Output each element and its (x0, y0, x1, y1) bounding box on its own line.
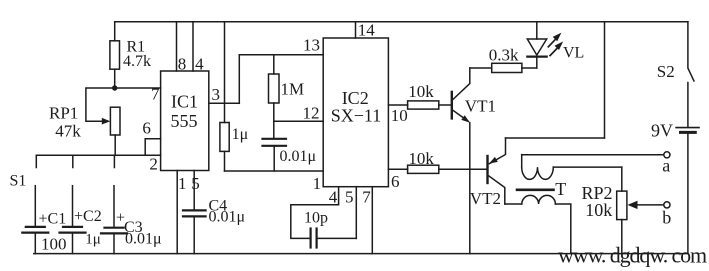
wire bottom ground rail (34, 253, 688, 255)
svg-text:5: 5 (191, 174, 200, 193)
capacitor 0.01u (under 1M) (263, 121, 317, 171)
resistor R1 4.7k (110, 22, 151, 88)
resistor 0.3k (470, 45, 537, 72)
IC1 pin 6 jog wire (142, 118, 160, 155)
svg-text:10p: 10p (304, 209, 328, 226)
switch S1 (3-gang selector contacts) (10, 155, 115, 189)
resistor 10k (upper) (408, 82, 452, 109)
svg-text:+C1: +C1 (39, 210, 67, 227)
potentiometer RP2 10k (582, 167, 627, 254)
resistor 1M (269, 55, 305, 122)
svg-text:6: 6 (142, 118, 151, 137)
svg-text:b: b (662, 208, 671, 228)
svg-text:1μ: 1μ (85, 232, 101, 248)
svg-text:9V: 9V (651, 121, 673, 141)
IC2 pin 14 (356, 21, 376, 40)
transformer T primary (top coil) (522, 155, 622, 180)
svg-text:1: 1 (178, 174, 187, 193)
IC2 pin 5 wire (318, 187, 357, 239)
transistor VT2 (PNP) (470, 138, 605, 208)
svg-text:a: a (662, 156, 670, 176)
watermark www.dgdqw.com (558, 243, 707, 268)
wire riser pin3 to pin13 line (238, 55, 240, 104)
svg-text:8: 8 (178, 55, 187, 74)
svg-text:www. dgdqw. com: www. dgdqw. com (558, 243, 707, 268)
svg-text:0.01μ: 0.01μ (125, 231, 162, 248)
svg-text:4.7k: 4.7k (123, 53, 151, 70)
IC1 pin 2 label (149, 154, 158, 173)
wire to IC2 pin 1 (225, 171, 324, 193)
LED VL (527, 22, 584, 68)
svg-text:IC1: IC1 (171, 92, 198, 112)
svg-text:4: 4 (195, 55, 204, 74)
wire junction to IC1 pin 7 (115, 87, 161, 89)
svg-text:100: 100 (41, 235, 67, 254)
switch S2 (657, 22, 694, 127)
capacitor 10p (304, 209, 328, 247)
resistor 10k (lower) (388, 149, 438, 174)
svg-text:13: 13 (303, 36, 320, 55)
IC1 pin 7 label (151, 84, 160, 103)
svg-text:7: 7 (151, 84, 160, 103)
IC1 pin 4 (193, 22, 204, 74)
svg-text:+C2: +C2 (74, 208, 102, 225)
capacitor C2 1u (electrolytic) (60, 186, 102, 254)
svg-text:47k: 47k (55, 121, 81, 140)
wire RP2 wiper to terminal b (628, 201, 664, 209)
svg-text:VT1: VT1 (465, 97, 496, 116)
node terminal a (662, 152, 670, 176)
wire to terminal a (522, 154, 664, 156)
op-amp IC2 SX-11 (323, 38, 388, 187)
svg-text:7: 7 (362, 187, 371, 206)
IC2 pin 6 label (391, 172, 400, 191)
svg-text:10k: 10k (408, 149, 434, 168)
wire VT2 base from 10k (439, 168, 488, 170)
transformer T core (517, 189, 554, 192)
svg-text:14: 14 (358, 21, 376, 40)
capacitor 1u (box style) (220, 123, 248, 172)
svg-text:1: 1 (313, 174, 322, 193)
wire to IC2 pin 12 (274, 104, 323, 123)
svg-text:6: 6 (391, 172, 400, 191)
wire left rail to IC1 pins 2 and 6 (36, 154, 160, 156)
svg-text:RP1: RP1 (49, 103, 78, 122)
potentiometer RP1 47k (49, 88, 120, 155)
IC1 pin 1 wire to ground (177, 171, 186, 254)
capacitor C4 0.01u (183, 198, 245, 254)
svg-text:S2: S2 (657, 62, 675, 81)
capacitor C1 100 (electrolytic) (22, 186, 66, 254)
svg-text:VL: VL (563, 44, 584, 61)
svg-text:T: T (555, 179, 566, 199)
transformer T secondary (bottom coil) (505, 179, 571, 253)
svg-text:5: 5 (345, 187, 354, 206)
svg-text:4: 4 (329, 187, 338, 206)
svg-text:2: 2 (149, 154, 158, 173)
svg-text:0.01μ: 0.01μ (280, 148, 317, 165)
battery 9V (651, 121, 699, 254)
IC2 pin 7 wire to ground (362, 187, 372, 254)
svg-text:10: 10 (391, 106, 408, 125)
transistor VT1 (452, 68, 496, 254)
IC1 pin 3 wire (209, 85, 240, 104)
svg-text:0.01μ: 0.01μ (209, 209, 246, 226)
svg-text:3: 3 (211, 85, 220, 104)
IC2 pin 4 wire (291, 187, 339, 239)
svg-text:S1: S1 (10, 173, 27, 190)
wire VCC drop for VT2 emitter rail (604, 22, 606, 138)
svg-text:10k: 10k (408, 82, 434, 101)
IC1 pin 5 wire (191, 171, 200, 210)
IC1 pin 8 (177, 22, 187, 74)
capacitor C3 0.01u (electrolytic) (101, 186, 162, 254)
svg-text:1M: 1M (281, 80, 305, 99)
op-amp IC1 555 timer (161, 71, 209, 171)
svg-text:1μ: 1μ (232, 126, 249, 143)
svg-text:VT2: VT2 (470, 189, 501, 208)
svg-text:0.3k: 0.3k (489, 45, 519, 64)
wire to IC2 pin 13 (239, 36, 323, 55)
node junction R1/RP1/pin7 (112, 85, 117, 90)
svg-text:10k: 10k (585, 200, 612, 220)
node terminal b (662, 202, 671, 228)
wire VCC drop to 1u box (224, 22, 226, 123)
wire top supply rail (115, 21, 688, 23)
svg-text:555: 555 (171, 111, 198, 131)
IC2 pin 10 wire (388, 105, 407, 125)
svg-text:SX−11: SX−11 (331, 106, 382, 126)
svg-text:12: 12 (303, 104, 320, 123)
